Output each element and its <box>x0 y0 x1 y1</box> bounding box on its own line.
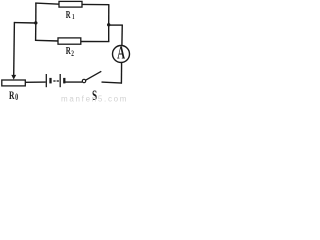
wire to R1 left <box>35 3 59 4</box>
node A (left junction dot) <box>34 21 37 24</box>
svg-text:R: R <box>66 45 71 57</box>
node B (right junction dot) <box>107 23 110 26</box>
wire down to ammeter <box>121 25 123 46</box>
wire to R2 left <box>35 39 59 42</box>
battery cell1 long plate <box>45 74 47 87</box>
wire node up to R1 branch <box>35 3 37 24</box>
wire down from R1 to right node <box>108 5 110 25</box>
wire bottom-right horizontal to switch <box>102 82 123 83</box>
rheostat R0 arrow head <box>11 75 16 80</box>
battery cell1 short plate <box>49 78 51 84</box>
svg-text:R: R <box>66 9 71 21</box>
wire right node to ammeter corner <box>109 24 123 26</box>
battery cell2 long plate <box>59 74 61 87</box>
rheostat R0 box <box>2 80 26 86</box>
wire node down to R2 branch <box>35 23 37 41</box>
battery dashes <box>53 80 55 82</box>
svg-text:A: A <box>117 44 125 63</box>
svg-text:0: 0 <box>15 92 18 103</box>
wire ammeter bottom down <box>120 62 122 83</box>
svg-text:1: 1 <box>72 13 74 21</box>
wire battery to switch <box>64 81 82 83</box>
wire R0 to battery <box>25 81 45 83</box>
svg-text:manfen5.com: manfen5.com <box>61 95 128 104</box>
switch S blade <box>86 71 102 80</box>
wire left vertical <box>13 22 16 76</box>
wire up from R2 to right node <box>108 25 110 42</box>
resistor R2 <box>58 38 81 44</box>
battery cell2 short plate <box>63 78 65 84</box>
ammeter U1 circle <box>113 46 130 63</box>
svg-text:R: R <box>9 89 15 102</box>
wire top-left horizontal <box>14 22 35 24</box>
switch pivot circle <box>82 79 85 82</box>
resistor R1 <box>59 1 82 7</box>
svg-text:2: 2 <box>71 49 74 59</box>
wire R1 right <box>82 3 109 5</box>
wire R2 right <box>81 41 110 43</box>
